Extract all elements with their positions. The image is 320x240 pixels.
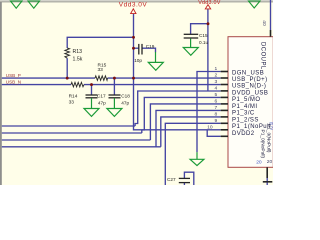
svg-text:40: 40 bbox=[261, 20, 267, 26]
svg-text:P1_3/C: P1_3/C bbox=[232, 111, 255, 117]
wire Vdd1 rail to pin10 bbox=[134, 14, 221, 130]
wire left bus 4 bbox=[2, 146, 161, 148]
svg-text:C15: C15 bbox=[199, 33, 208, 38]
pin numbers bbox=[207, 66, 217, 130]
pin names inside IC bbox=[232, 70, 271, 137]
svg-text:USB_P(D+): USB_P(D+) bbox=[232, 77, 268, 83]
power Vdd3.0V #2 bbox=[205, 5, 210, 9]
svg-text:2: 2 bbox=[214, 73, 217, 79]
ground at C18 bbox=[107, 98, 122, 116]
pin 3 stub bbox=[221, 84, 228, 86]
wire pin4 L bbox=[135, 91, 221, 126]
pin 5 stub bbox=[221, 96, 228, 98]
sheet background bbox=[0, 0, 273, 185]
wire left bus 2 bbox=[2, 132, 142, 134]
capacitor C27 bbox=[179, 178, 190, 182]
svg-text:Vdd3.0V: Vdd3.0V bbox=[198, 0, 221, 6]
svg-text:P1_4/MI: P1_4/MI bbox=[232, 104, 258, 110]
svg-text:DCOUPL: DCOUPL bbox=[260, 42, 266, 70]
svg-text:C18: C18 bbox=[121, 94, 130, 99]
wire pin11 jog from Vdd rail bbox=[207, 130, 221, 137]
wire USB_N row bbox=[2, 84, 71, 86]
wire R13 top bbox=[67, 37, 133, 48]
node Vdd rail/USB_P bbox=[132, 77, 135, 80]
resistor R13 bbox=[65, 48, 70, 58]
wire R13 bottom lead bbox=[66, 58, 68, 78]
svg-text:47p: 47p bbox=[98, 101, 106, 106]
wire pin40 top bbox=[270, 0, 272, 30]
wire left bus 1 bbox=[2, 125, 135, 127]
svg-text:33: 33 bbox=[98, 67, 104, 73]
svg-text:USB_P: USB_P bbox=[6, 73, 21, 78]
pin 11 stub bbox=[221, 135, 228, 137]
svg-text:P1_0(NoPull): P1_0(NoPull) bbox=[266, 124, 272, 153]
svg-text:0.1u: 0.1u bbox=[199, 40, 209, 45]
ground top-left 2 bbox=[28, 1, 40, 8]
svg-text:20: 20 bbox=[267, 159, 273, 165]
IC pin stubs and numbers bbox=[221, 30, 273, 182]
sheet left border strip bbox=[0, 2, 2, 185]
wire C27 hook bbox=[184, 172, 193, 185]
svg-text:10p: 10p bbox=[134, 58, 142, 63]
wire pin6 L bbox=[150, 104, 220, 140]
svg-text:1.5k: 1.5k bbox=[73, 57, 83, 63]
svg-text:DVDD2: DVDD2 bbox=[232, 131, 255, 137]
sheet top border line bbox=[0, 0, 273, 1]
svg-text:6: 6 bbox=[214, 99, 217, 105]
svg-text:33: 33 bbox=[69, 99, 75, 105]
resistor R15 bbox=[95, 76, 108, 80]
svg-text:10: 10 bbox=[207, 125, 213, 131]
svg-text:1: 1 bbox=[214, 66, 217, 72]
svg-text:7: 7 bbox=[214, 105, 217, 111]
svg-text:DGN_USB: DGN_USB bbox=[232, 70, 264, 76]
junction dots bbox=[66, 22, 210, 86]
capacitor C15 bbox=[184, 34, 199, 38]
wire C18 stub bbox=[113, 78, 115, 95]
svg-text:P1_2/SS: P1_2/SS bbox=[232, 117, 259, 123]
resistor R14 bbox=[71, 82, 84, 86]
svg-text:20: 20 bbox=[256, 160, 262, 166]
wire pin8 L bbox=[161, 117, 221, 147]
ground at pin1 wire bbox=[190, 152, 204, 165]
node R13 wire/Vdd rail bbox=[132, 36, 135, 39]
svg-text:C17: C17 bbox=[97, 94, 106, 99]
svg-text:C27: C27 bbox=[167, 177, 176, 182]
svg-text:USB_N: USB_N bbox=[6, 79, 21, 84]
svg-text:P1_5/MO: P1_5/MO bbox=[232, 97, 261, 103]
pin 6 stub bbox=[221, 103, 228, 105]
pin 20 tick bbox=[263, 181, 273, 183]
svg-text:P1_0(NoPull): P1_0(NoPull) bbox=[260, 130, 266, 159]
wire pin7 L bbox=[156, 110, 221, 146]
ground at C19 bbox=[148, 52, 163, 70]
pin 8 stub bbox=[221, 116, 228, 118]
pin 4 stub bbox=[221, 90, 228, 92]
node C17/USB_N bbox=[90, 83, 93, 86]
node R13/USB_P bbox=[66, 77, 69, 80]
svg-text:C19: C19 bbox=[146, 44, 155, 49]
node C18/USB_P bbox=[113, 77, 116, 80]
capacitor C18 bbox=[109, 95, 121, 98]
wire C15 branch bbox=[191, 24, 208, 34]
IC U1 body bbox=[228, 37, 273, 168]
wire pin20 bottom bbox=[266, 178, 268, 185]
wire left bus 3 bbox=[2, 139, 151, 141]
svg-text:DVDD_USB: DVDD_USB bbox=[232, 91, 268, 97]
svg-text:R14: R14 bbox=[69, 94, 78, 100]
wire pin1 to ground bbox=[197, 72, 221, 153]
pin 20 stub bottom bbox=[266, 167, 268, 178]
ground top-right above IC bbox=[249, 1, 261, 8]
svg-text:USB_N(D-): USB_N(D-) bbox=[232, 84, 266, 90]
svg-text:5: 5 bbox=[214, 92, 217, 98]
capacitor C17 bbox=[86, 95, 98, 98]
svg-text:4: 4 bbox=[214, 86, 217, 92]
svg-text:R13: R13 bbox=[73, 49, 83, 55]
pin 40 stub top bbox=[270, 30, 272, 37]
pin 10 stub bbox=[221, 129, 228, 131]
svg-text:Vdd3.0V: Vdd3.0V bbox=[119, 2, 148, 9]
pin 7 stub bbox=[221, 109, 228, 111]
svg-text:8: 8 bbox=[214, 112, 217, 118]
pin 1 stub bbox=[221, 71, 228, 73]
wire pin5 L bbox=[142, 97, 221, 133]
node C19/Vdd rail bbox=[132, 47, 135, 50]
svg-text:9: 9 bbox=[214, 118, 217, 124]
wire Vdd2 vertical bbox=[207, 9, 209, 91]
svg-text:3: 3 bbox=[214, 79, 217, 85]
wire USB_P row left bbox=[2, 9, 267, 185]
ground at C17 bbox=[84, 98, 99, 116]
wire C17 stub bbox=[91, 85, 93, 95]
wire C27 bottom stub bbox=[183, 183, 185, 185]
power Vdd3.0V #1 bbox=[131, 9, 136, 14]
node C15/Vdd2 bbox=[207, 22, 210, 25]
wire C19 branch bbox=[134, 47, 139, 49]
pin 2 stub bbox=[221, 77, 228, 79]
wire pin9 to C27 bbox=[165, 123, 220, 185]
pin 9 stub bbox=[221, 122, 228, 124]
ground top-left 1 bbox=[11, 1, 23, 8]
capacitor C19 bbox=[139, 44, 142, 55]
svg-text:47p: 47p bbox=[121, 101, 129, 106]
ground at C15 bbox=[183, 39, 198, 56]
